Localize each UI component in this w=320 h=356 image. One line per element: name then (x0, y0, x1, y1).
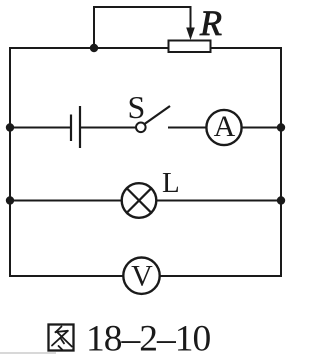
rheostat R body (169, 41, 211, 53)
svg-text:V: V (131, 259, 153, 292)
wire battery to switch (80, 127, 136, 129)
battery cell: short plate (70, 115, 72, 142)
lamp L (122, 183, 157, 218)
node row3 right (277, 196, 285, 204)
svg-text:R: R (199, 3, 222, 43)
wire row3 (10, 200, 281, 202)
svg-text:18–2–10: 18–2–10 (86, 319, 211, 356)
node top junction (90, 44, 98, 52)
wire row2 left (10, 127, 71, 129)
voltmeter V (123, 258, 159, 294)
node row2 right (277, 123, 285, 131)
wire switch to right (168, 127, 281, 129)
wire outer loop (10, 48, 281, 276)
caption: hanzi 图 drawn as strokes (49, 325, 74, 351)
svg-text:S: S (128, 89, 146, 125)
ammeter A (206, 110, 241, 145)
switch S pivot (136, 123, 146, 133)
battery cell: long plate (79, 106, 81, 148)
switch S lever (145, 106, 171, 124)
svg-text:L: L (162, 167, 180, 199)
svg-text:A: A (214, 110, 236, 143)
node row2 left (6, 123, 14, 131)
wire bypass to rheostat slider (94, 7, 191, 48)
rheostat R arrow (186, 28, 195, 41)
node row3 left (6, 196, 14, 204)
